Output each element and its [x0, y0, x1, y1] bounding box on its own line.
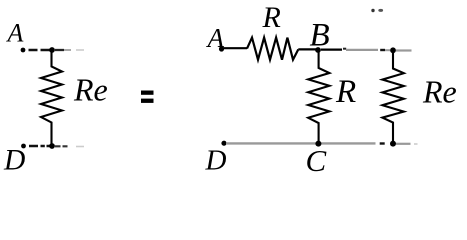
wire D to junction (dashed, left bottom) [29, 145, 51, 147]
wire B rightward (dark then gray) [321, 48, 342, 50]
two small dots artifact top right [371, 9, 374, 12]
node B dot [315, 47, 321, 53]
svg-text:R: R [335, 74, 356, 110]
resistor Re (left circuit) [41, 50, 62, 146]
svg-text:C: C [306, 143, 327, 178]
wire stub right of bottom-left junction [55, 145, 68, 147]
svg-text:A: A [6, 19, 24, 48]
wire A to junction (dashed, left top) [29, 49, 53, 51]
top-right node dot [390, 47, 396, 53]
equals sign [141, 91, 154, 95]
resistor R (vertical, middle) [308, 50, 329, 144]
node A (right) dot [219, 46, 224, 51]
svg-text:Re: Re [73, 72, 108, 108]
wire R to B [298, 48, 317, 50]
svg-text:R: R [262, 1, 281, 34]
svg-text:D: D [205, 145, 227, 177]
wire A to resistor R [223, 47, 247, 49]
wire stub right of top-left junction [55, 49, 64, 51]
resistor R (horizontal) [247, 38, 298, 60]
stub right of bottom-right node [396, 143, 411, 145]
junction top-left [49, 47, 55, 53]
node A (left) dot [21, 48, 26, 53]
bottom wire D to C to right [226, 142, 376, 144]
stub right of top-right node [396, 49, 412, 51]
bottom-right node dot [390, 141, 396, 147]
node D (right) dot [221, 141, 226, 146]
svg-text:Re: Re [422, 74, 457, 110]
node D (left) dot [21, 144, 26, 149]
resistor Re (right) [382, 50, 403, 143]
node C dot [315, 141, 321, 147]
svg-text:D: D [3, 145, 25, 177]
junction bottom-left [49, 143, 55, 149]
